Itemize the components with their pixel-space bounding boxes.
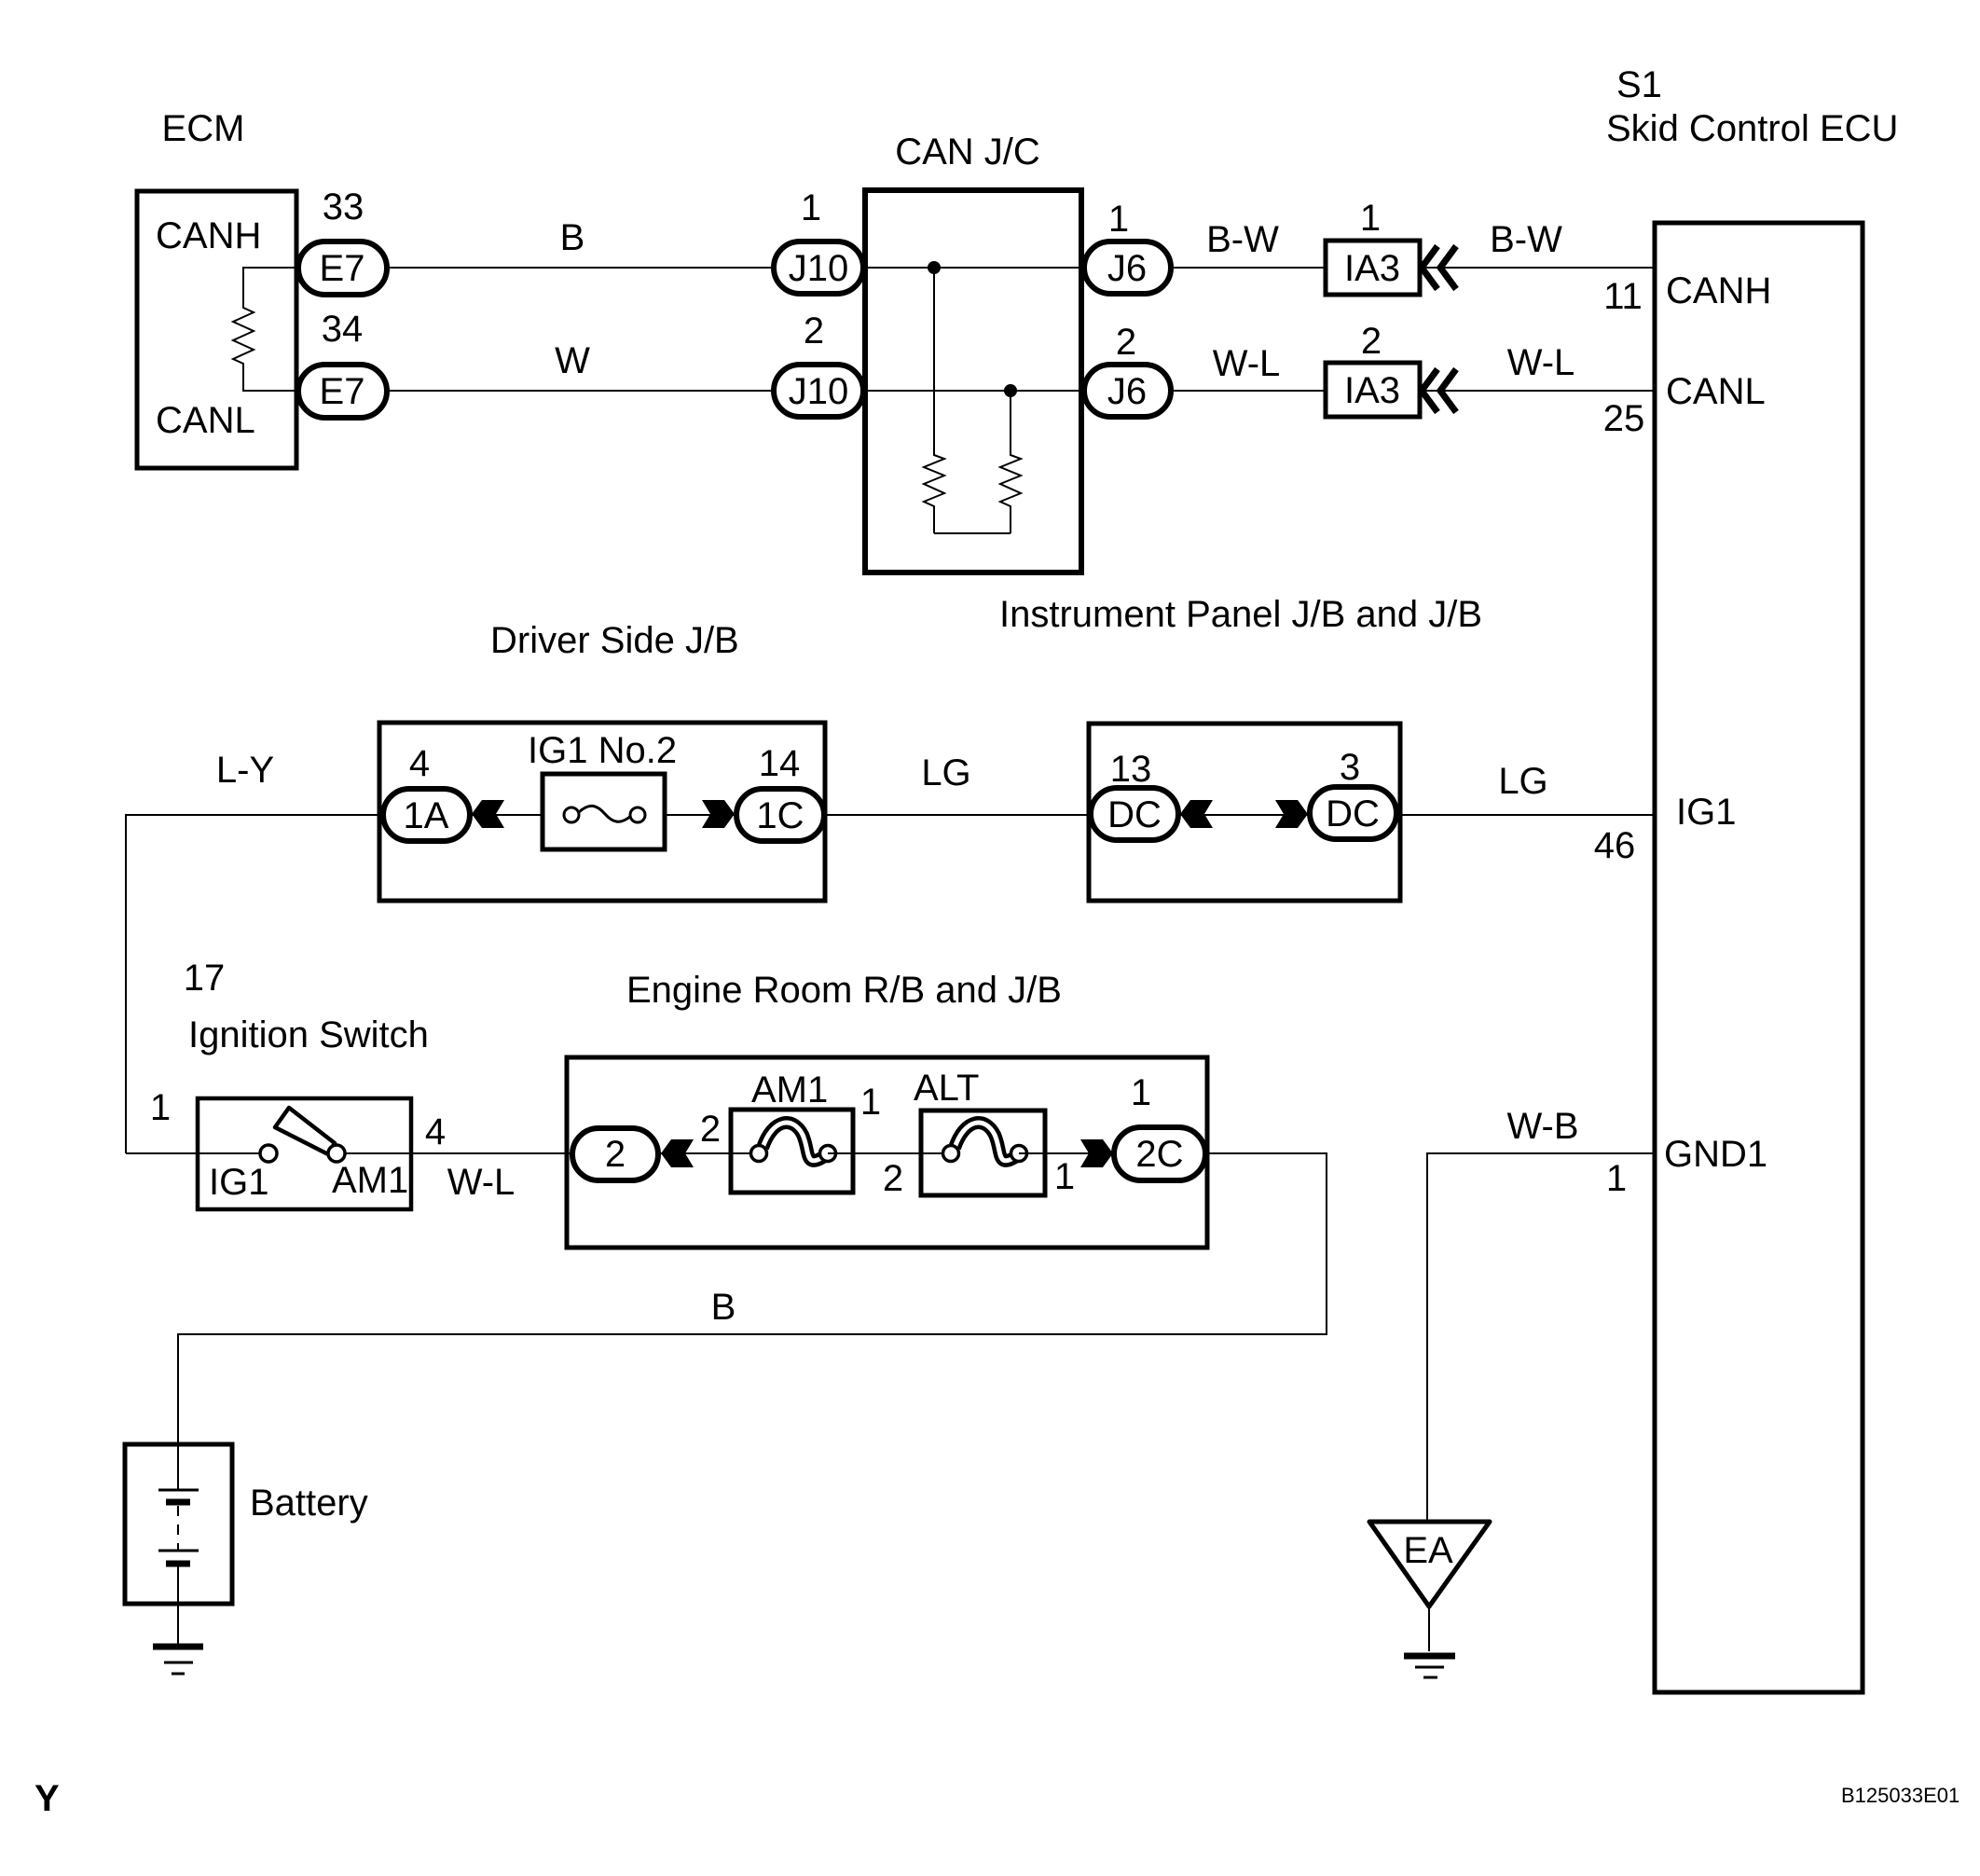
arrow (toward 1C) [702, 800, 735, 828]
Skid Control ECU box S1 [1655, 223, 1863, 1692]
wire (EA to ground) [1428, 1607, 1430, 1651]
svg-text:W-L: W-L [1507, 342, 1575, 383]
svg-text:1: 1 [1131, 1072, 1151, 1113]
wire (DC to DC) [1178, 814, 1310, 816]
svg-text:LG: LG [1498, 761, 1547, 802]
wire LG (DC-3 to skid ECU IG1 pin 46) [1396, 814, 1655, 816]
svg-text:25: 25 [1603, 398, 1645, 439]
CAN J/C box [865, 190, 1081, 572]
Instrument panel J/B box (DC) [1089, 724, 1400, 901]
fusible link AM1 element [763, 1123, 823, 1161]
ground (EA) [1404, 1653, 1455, 1660]
connector DC pin 13 [1091, 788, 1178, 840]
fusible link ALT box [921, 1110, 1045, 1195]
connector J6 pin 2 [1084, 365, 1171, 417]
wire B (engine room to battery) [178, 1153, 1327, 1448]
svg-text:4: 4 [425, 1111, 446, 1152]
svg-text:B-W: B-W [1490, 219, 1562, 260]
connector J10 pin 1 [774, 241, 863, 294]
resistor (CAN J/C terminating resistor 2) [1000, 391, 1021, 533]
svg-text:B-W: B-W [1206, 219, 1279, 260]
svg-text:W: W [555, 340, 590, 381]
ground point EA triangle [1369, 1522, 1490, 1607]
wire W-L (IA3-2 to skid control ECU pin 25) [1420, 390, 1655, 392]
battery cell symbol [177, 1448, 179, 1490]
wire B-W (IA3-1 to skid control ECU pin 11) [1420, 267, 1655, 269]
svg-text:CAN J/C: CAN J/C [895, 131, 1040, 172]
wire (CANL bus inside CAN J/C) [863, 390, 1084, 392]
shield chevrons (CANL) [1422, 369, 1437, 412]
connector 2C pin 1 [1114, 1127, 1205, 1180]
svg-text:33: 33 [323, 186, 364, 228]
arrow (toward 2C) [1080, 1139, 1113, 1167]
junction node (CANH bus) [928, 261, 941, 274]
svg-text:IG1 No.2: IG1 No.2 [528, 730, 677, 771]
resistor (CAN J/C terminating resistor 1) [924, 268, 944, 533]
svg-text:1: 1 [1606, 1158, 1627, 1199]
svg-text:Skid Control ECU: Skid Control ECU [1606, 108, 1898, 149]
wire (fuse to 1C) [665, 814, 736, 816]
svg-text:J10: J10 [789, 371, 849, 412]
fusible link ALT element [955, 1123, 1015, 1161]
connector IA3 pin 2 [1326, 363, 1420, 417]
svg-text:IA3: IA3 [1344, 370, 1400, 411]
svg-text:E7: E7 [320, 371, 365, 412]
svg-text:W-L: W-L [1213, 343, 1281, 384]
wire W-L (J6-2 to IA3-2) [1171, 390, 1326, 392]
svg-text:DC: DC [1107, 794, 1162, 835]
svg-text:1: 1 [1054, 1156, 1075, 1197]
svg-text:CANL: CANL [1666, 371, 1766, 412]
wire (ALT to 2C) [1019, 1152, 1114, 1154]
connector 1A pin 4 [383, 789, 470, 841]
fusible link AM1 box [731, 1110, 853, 1193]
svg-text:2: 2 [1116, 322, 1136, 363]
wire LG (1C to DC-13) [824, 814, 1090, 816]
svg-text:IA3: IA3 [1344, 248, 1400, 289]
svg-text:AM1: AM1 [751, 1069, 828, 1110]
fuse IG1 No.2 box [543, 774, 665, 849]
fuse element [579, 806, 631, 821]
wire W (ECM E7-34 to J10-2) [387, 390, 774, 392]
svg-text:13: 13 [1110, 749, 1152, 790]
svg-text:CANH: CANH [156, 215, 261, 256]
resistor (ECM CAN terminating resistor) [233, 268, 300, 391]
svg-text:2: 2 [605, 1134, 626, 1175]
wire B-W (J6-1 to IA3-1) [1171, 267, 1326, 269]
svg-text:1A: 1A [404, 795, 449, 836]
connector DC pin 3 [1310, 787, 1396, 839]
svg-text:34: 34 [322, 309, 364, 350]
svg-text:ECM: ECM [162, 108, 245, 149]
connector IA3 pin 1 [1326, 241, 1420, 295]
svg-text:1: 1 [1108, 199, 1129, 240]
wire B (ECM E7-33 to J10-1) [387, 267, 774, 269]
wire (AM1 to ALT) [828, 1152, 951, 1154]
arrow (toward DC-13) [1180, 800, 1213, 828]
svg-text:Engine Room R/B and J/B: Engine Room R/B and J/B [626, 970, 1062, 1011]
svg-text:B: B [560, 217, 585, 258]
Engine Room R/B and J/B box [567, 1057, 1207, 1248]
svg-text:2: 2 [804, 310, 824, 352]
connector E7 pin 34 (CANL) [298, 365, 387, 418]
svg-text:2: 2 [883, 1158, 903, 1199]
terminal AM1 [328, 1145, 345, 1162]
connector 1C pin 14 [736, 789, 824, 841]
battery box [125, 1444, 232, 1604]
wire W-B (EA ground to skid ECU GND1 pin 1) [1427, 1153, 1655, 1522]
svg-text:W-B: W-B [1506, 1106, 1578, 1147]
svg-text:1: 1 [150, 1087, 171, 1128]
svg-text:Instrument Panel J/B and J/B: Instrument Panel J/B and J/B [999, 594, 1482, 635]
svg-text:J10: J10 [789, 248, 849, 289]
svg-text:11: 11 [1603, 276, 1643, 317]
svg-text:Ignition Switch: Ignition Switch [188, 1014, 429, 1055]
Driver Side J/B box [379, 723, 825, 901]
wire (CANH bus inside CAN J/C) [863, 267, 1084, 269]
svg-text:S1: S1 [1616, 64, 1662, 105]
arrow (toward 2) [661, 1139, 694, 1167]
arrow (toward DC-3) [1275, 800, 1308, 828]
svg-text:W-L: W-L [447, 1162, 516, 1203]
svg-text:2: 2 [700, 1109, 721, 1150]
connector J6 pin 1 [1084, 241, 1171, 294]
wire (1A to fuse) [470, 814, 543, 816]
ignition switch box [198, 1098, 411, 1209]
svg-text:1: 1 [1360, 198, 1381, 239]
svg-text:1: 1 [801, 187, 821, 228]
svg-text:E7: E7 [320, 248, 365, 289]
svg-text:GND1: GND1 [1664, 1134, 1767, 1175]
svg-text:4: 4 [409, 743, 430, 784]
svg-text:3: 3 [1340, 747, 1360, 788]
svg-text:1C: 1C [756, 795, 804, 836]
arrow (toward 1A) [472, 800, 504, 828]
svg-text:Driver Side J/B: Driver Side J/B [490, 620, 739, 661]
wire (into ignition switch IG1 terminal) [126, 1152, 261, 1154]
wire L-Y (ignition switch to 1A) [126, 815, 383, 1153]
junction node (CANL bus) [1004, 384, 1017, 397]
svg-text:Y: Y [34, 1778, 60, 1819]
svg-text:CANH: CANH [1666, 270, 1771, 311]
svg-text:CANL: CANL [156, 400, 255, 441]
terminal IG1 [260, 1145, 277, 1162]
svg-text:AM1: AM1 [332, 1160, 408, 1201]
svg-text:Battery: Battery [250, 1483, 368, 1524]
ground (battery) [153, 1644, 203, 1650]
svg-text:1: 1 [860, 1082, 881, 1123]
svg-text:LG: LG [921, 752, 970, 793]
connector E7 pin 33 (CANH) [298, 241, 387, 295]
svg-text:17: 17 [184, 958, 226, 999]
svg-text:IG1: IG1 [1676, 792, 1736, 833]
svg-text:2: 2 [1361, 321, 1382, 362]
svg-text:B125033E01: B125033E01 [1841, 1784, 1959, 1807]
wire (2 to AM1 fusible link) [658, 1152, 759, 1154]
wire (resistor bottom link) [934, 532, 1011, 534]
svg-text:ALT: ALT [914, 1068, 979, 1109]
svg-text:2C: 2C [1135, 1134, 1183, 1175]
svg-text:46: 46 [1594, 825, 1636, 866]
ECM box [137, 191, 296, 468]
wire W-L (ignition switch to engine room 2) [345, 1152, 572, 1154]
connector J10 pin 2 [774, 365, 863, 417]
svg-text:L-Y: L-Y [216, 750, 274, 791]
shield chevrons (CANH) [1422, 246, 1437, 289]
svg-text:DC: DC [1326, 793, 1380, 835]
connector 2 [572, 1128, 658, 1180]
svg-text:IG1: IG1 [209, 1162, 268, 1203]
switch lever [275, 1108, 335, 1154]
svg-text:B: B [711, 1287, 736, 1328]
svg-text:J6: J6 [1107, 371, 1147, 412]
svg-text:EA: EA [1403, 1530, 1453, 1571]
svg-text:14: 14 [759, 743, 801, 784]
svg-text:J6: J6 [1107, 248, 1147, 289]
